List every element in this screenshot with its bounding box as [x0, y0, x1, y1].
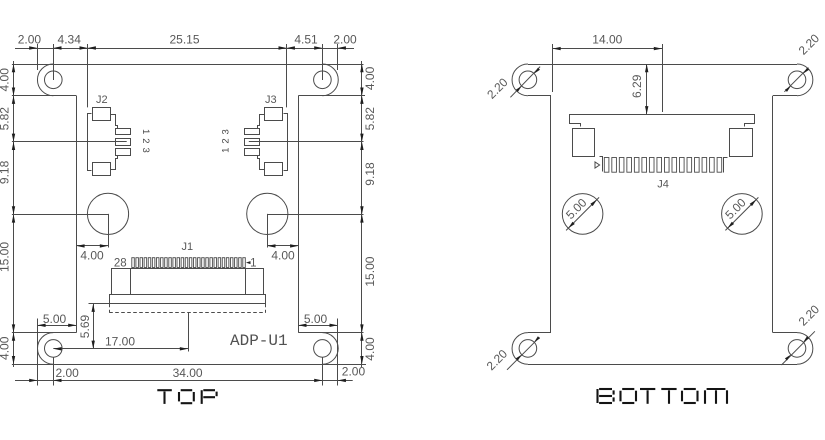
- wire bottom-view bottom-right step: [773, 332, 797, 334]
- svg-text:5.82: 5.82: [0, 107, 12, 131]
- svg-text:2.20: 2.20: [796, 31, 823, 58]
- dimension 17.00 arrows: [53, 347, 61, 350]
- wire bottom-view board bottom edge: [528, 364, 797, 366]
- svg-text:2.00: 2.00: [18, 33, 42, 47]
- mounting hole top-right (BOTTOM view): [788, 71, 806, 89]
- dimension 5.69 arrows: [92, 304, 95, 312]
- mounting hole bottom-left (TOP view): [45, 340, 63, 358]
- svg-text:5.69: 5.69: [78, 314, 92, 338]
- view title BOTTOM: [596, 389, 598, 403]
- wire top-right step edge y=95.7: [298, 95, 365, 97]
- connector J3 pin 1 pad: [245, 129, 260, 135]
- hole diameter leader bottom-left (BOTTOM view): [507, 337, 540, 370]
- hole 5.00 left circle (BOTTOM view): [562, 194, 603, 235]
- connector J3 pad B (bottom): [265, 163, 283, 176]
- mounting hole top-left (BOTTOM view): [519, 71, 537, 89]
- svg-text:4.51: 4.51: [294, 33, 318, 47]
- dimension ext lens-right center line: [267, 214, 363, 216]
- svg-text:2.20: 2.20: [484, 75, 511, 102]
- wire bottom-view mid-right edge: [772, 96, 774, 333]
- wire bottom-view top-left step: [528, 95, 551, 97]
- svg-text:ADP-U1: ADP-U1: [230, 332, 288, 350]
- hole diameter leader top-right (BOTTOM view): [784, 68, 808, 92]
- dimension 6.29 arrows: [645, 64, 648, 72]
- connector J1 body right block: [246, 269, 264, 295]
- connector J3 pin 3 pad: [245, 149, 260, 156]
- wire bottom-view bottom-right tab arc: [797, 333, 813, 365]
- mounting hole bottom-right (TOP view): [314, 340, 332, 358]
- wire bottom-right step edge y=332.6: [298, 332, 363, 334]
- svg-text:34.00: 34.00: [173, 366, 203, 380]
- dimension 17.00 line: [53, 348, 188, 350]
- svg-text:5.00: 5.00: [563, 195, 590, 222]
- dimension ext lens-left center line: [12, 214, 108, 216]
- dimension right column line: [361, 61, 363, 367]
- lens opening right circle: [247, 193, 288, 234]
- dimension 4.00 lens-right arrows: [267, 244, 275, 247]
- svg-text:2: 2: [221, 138, 232, 143]
- svg-text:4.00: 4.00: [0, 336, 12, 360]
- dimension ext J4 center line: [662, 44, 664, 112]
- svg-text:3: 3: [221, 129, 232, 134]
- svg-text:2.20: 2.20: [484, 346, 511, 373]
- dimension ext right board edge: [337, 44, 339, 70]
- wire bottom-left step edge y=332.6: [12, 332, 77, 334]
- hole diameter leader left (BOTTOM view): [566, 197, 599, 230]
- node lens-left center line vertical: [108, 214, 110, 248]
- hole diameter leader right (BOTTOM view): [725, 197, 758, 230]
- dimension bottom arrows: [29, 379, 37, 382]
- hole diameter leader top-left (BOTTOM view): [510, 67, 540, 98]
- svg-text:2: 2: [140, 138, 151, 143]
- connector J4 pin row (16 pins): [604, 158, 609, 173]
- connector J4 left pad: [573, 129, 595, 157]
- svg-text:5.00: 5.00: [722, 195, 749, 222]
- wire bottom-view bottom-left step: [528, 332, 551, 334]
- svg-text:1: 1: [221, 148, 232, 153]
- dimension ext mid-left edge: [552, 44, 554, 92]
- dimension 6.29 line: [646, 64, 648, 114]
- dimension 5.00 right line: [298, 325, 337, 327]
- connector J2 pin 3 pad: [116, 149, 131, 156]
- connector J4 pin row left end mark: [600, 157, 603, 172]
- dimension ext J2 center line: [12, 141, 127, 143]
- dimension 4.00 lens-right line: [267, 245, 298, 247]
- connector J3 body right bracket: [284, 114, 288, 171]
- dimension 5.69 line: [93, 304, 95, 349]
- wire bottom-view board top edge: [528, 64, 797, 66]
- wire top-left corner tab arc: [37, 64, 53, 96]
- dimension bottom row line: [15, 380, 353, 382]
- svg-text:25.15: 25.15: [169, 33, 199, 47]
- svg-text:9.18: 9.18: [0, 160, 12, 184]
- wire bottom-view bottom-left tab arc: [512, 333, 528, 365]
- svg-text:28: 28: [114, 258, 127, 270]
- hole diameter leader bottom-right (BOTTOM view): [782, 331, 815, 365]
- dimension top arrows: [29, 46, 37, 49]
- dimension left column arrows: [12, 64, 15, 72]
- lens opening left circle: [87, 193, 128, 234]
- wire board bottom edge (TOP view) with extensions: [12, 364, 366, 366]
- svg-text:3: 3: [140, 147, 151, 152]
- svg-text:6.29: 6.29: [630, 74, 644, 98]
- connector J2 pad B (bottom): [93, 163, 111, 176]
- node J1 center line: [188, 313, 190, 352]
- dimension 5.00 left arrows: [37, 324, 45, 327]
- dimension ext right board edge bottom: [337, 319, 339, 386]
- connector J4 body top edge with end stubs: [570, 115, 755, 127]
- svg-text:J1: J1: [181, 241, 193, 253]
- dimension ext hole TR center: [322, 44, 324, 80]
- dimension 14.00 line: [553, 48, 663, 50]
- dimension ext hole TL center: [53, 44, 55, 80]
- svg-text:5.82: 5.82: [363, 107, 377, 131]
- connector J3 pad A (top): [265, 108, 283, 121]
- wire bottom-view mid-left edge: [550, 96, 552, 333]
- svg-text:9.18: 9.18: [363, 162, 377, 186]
- wire top-left step edge y=95.7: [12, 95, 77, 97]
- wire bottom-view top-right step: [773, 95, 797, 97]
- connector J2 pin 1 pad: [116, 129, 131, 135]
- svg-text:5.00: 5.00: [43, 312, 67, 326]
- dimension ext left board edge bottom: [37, 319, 39, 386]
- connector J3 body left outline bottom jog: [258, 155, 265, 169]
- wire bottom-left corner tab arc: [38, 333, 54, 365]
- svg-text:4.34: 4.34: [58, 33, 82, 47]
- svg-text:2.20: 2.20: [796, 302, 823, 329]
- connector J2 pin 2 pad: [116, 139, 131, 146]
- svg-text:1: 1: [140, 129, 151, 134]
- connector J2 body left bracket: [88, 114, 92, 171]
- node lens-right center line vertical: [267, 214, 269, 248]
- dimension ext J2 left edge: [87, 44, 89, 107]
- svg-text:J2: J2: [96, 94, 108, 106]
- wire bottom-view top-right tab arc: [797, 64, 813, 96]
- svg-text:4.00: 4.00: [363, 337, 377, 361]
- wire board mid-right edge: [298, 96, 300, 333]
- view title TOP: [157, 389, 172, 391]
- dimension 14.00 arrows: [553, 47, 561, 50]
- svg-text:5.00: 5.00: [304, 312, 328, 326]
- wire board mid-left edge: [76, 96, 78, 333]
- connector J4 right pad: [730, 129, 753, 157]
- svg-text:2.00: 2.00: [56, 366, 80, 380]
- connector J1 body top edge: [112, 268, 264, 270]
- connector J1 body bottom bar: [110, 295, 266, 304]
- dimension ext J3 right edge: [286, 44, 288, 107]
- dimension 4.00 lens-left line: [76, 245, 108, 247]
- dimension ext J3 center line: [249, 141, 364, 143]
- connector J2 body right outline top jog: [111, 115, 118, 129]
- svg-text:2.00: 2.00: [333, 33, 357, 47]
- mounting hole bottom-right (BOTTOM view): [788, 340, 806, 358]
- connector J4 pin 1 triangle marker: [595, 162, 600, 168]
- hole 5.00 right circle (BOTTOM view): [722, 194, 763, 235]
- svg-text:14.00: 14.00: [592, 33, 622, 47]
- dimension ext hole BL center: [53, 357, 55, 385]
- connector J3 pin 2 pad: [245, 139, 260, 146]
- wire bottom-view top-left tab arc: [512, 64, 528, 96]
- mounting hole top-right (TOP view): [314, 71, 332, 89]
- dimension 4.00 lens-left arrows: [76, 244, 84, 247]
- mounting hole bottom-left (BOTTOM view): [519, 340, 537, 358]
- svg-text:1: 1: [250, 258, 256, 270]
- wire board top edge (TOP view) with extensions: [12, 64, 364, 66]
- connector J1 pin row (28 pins): [132, 258, 135, 268]
- dimension top row line: [15, 48, 354, 50]
- dimension ext J1 bottom edge: [89, 303, 110, 305]
- dimension left column line: [13, 61, 15, 367]
- connector J1 pin 1 marker arrow: [246, 261, 251, 264]
- connector J3 body left outline top jog: [258, 115, 265, 129]
- svg-text:4.00: 4.00: [363, 66, 377, 90]
- svg-text:17.00: 17.00: [105, 335, 135, 349]
- connector J4 pin row right end mark: [724, 158, 728, 173]
- svg-text:15.00: 15.00: [363, 256, 377, 286]
- mounting hole top-left (TOP view): [45, 71, 63, 89]
- connector J2 body right outline bottom jog: [111, 155, 118, 169]
- dimension right column arrows: [360, 64, 363, 72]
- dimension 5.00 right arrows: [298, 324, 306, 327]
- dimension ext left board edge: [37, 44, 39, 70]
- svg-text:4.00: 4.00: [80, 249, 104, 263]
- dimension 5.00 left line: [37, 325, 76, 327]
- wire top-right corner tab arc: [322, 64, 338, 96]
- dimension ext hole BR center: [322, 357, 324, 385]
- wire bottom-right corner tab arc: [322, 333, 338, 365]
- svg-text:4.00: 4.00: [0, 68, 12, 92]
- svg-text:J4: J4: [657, 179, 669, 191]
- svg-text:15.00: 15.00: [0, 242, 12, 272]
- svg-text:J3: J3: [265, 94, 277, 106]
- svg-text:4.00: 4.00: [271, 249, 295, 263]
- connector J1 FFC cable dashed outline: [109, 304, 111, 313]
- connector J1 body left block: [112, 269, 131, 295]
- connector J2 pad A (top): [93, 108, 111, 121]
